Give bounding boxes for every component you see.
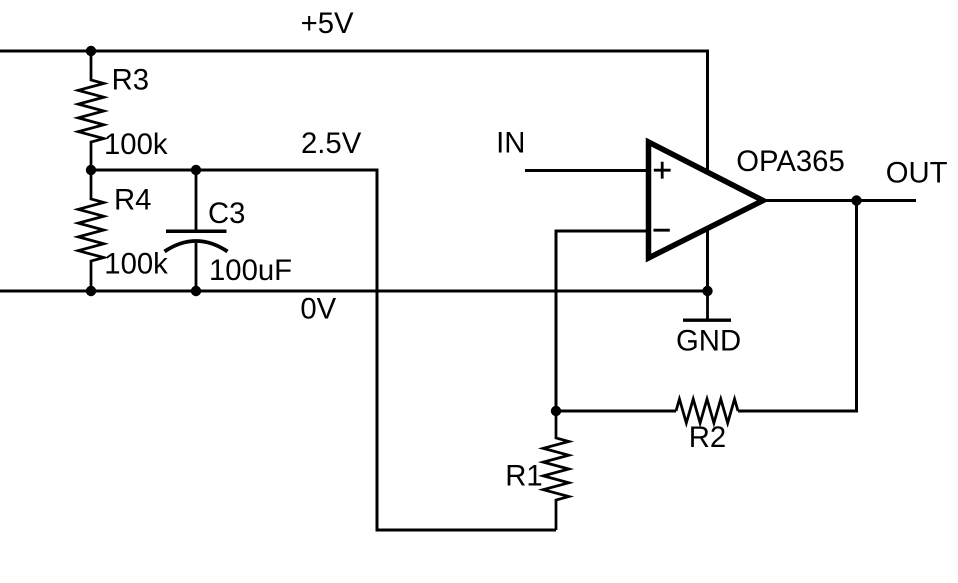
junction output/OUT [851,195,861,205]
svg-text:0V: 0V [300,292,336,325]
junction R3/R4/2.5V node [86,165,96,175]
op-amp U1 OPA365 triangle [649,142,764,258]
junction R4/0V [86,286,96,296]
svg-text:OPA365: OPA365 [736,145,845,178]
svg-text:100k: 100k [104,128,168,161]
resistor R1 [543,411,569,530]
svg-text:100uF: 100uF [209,254,292,287]
op-amp + input symbol [654,162,671,179]
resistor R3 [78,51,104,170]
wire 2.5V rail [91,170,556,530]
junction R1/R2/feedback [551,406,561,416]
svg-text:R1: R1 [505,460,542,493]
junction C3/0V [191,286,201,296]
capacitor C3 lead from 2.5V [195,170,198,230]
wire op-amp - input to feedback node [556,231,648,411]
capacitor C3 top plate [166,230,227,234]
svg-text:100k: 100k [104,248,168,281]
svg-text:R4: R4 [114,184,151,217]
svg-text:GND: GND [676,324,741,357]
resistor R2 [676,399,738,423]
junction 2.5V/C3 [191,165,201,175]
wire 0V rail [0,290,708,293]
wire op-amp V- to 0V rail [706,229,709,291]
resistor R4 [78,170,104,291]
wire IN to op-amp + input [525,169,648,172]
wire op-amp output [763,199,916,202]
capacitor C3 curved plate [165,241,228,252]
ground GND stub [706,291,709,319]
svg-text:IN: IN [496,126,525,159]
wire +5V rail and drop to op-amp V+ [0,51,708,171]
svg-text:+5V: +5V [301,7,354,40]
svg-text:R2: R2 [689,421,726,454]
svg-text:R3: R3 [112,64,149,97]
wire OUT drop to R2 [738,201,857,412]
junction 0V/GND/op-amp V- [702,286,712,296]
svg-text:2.5V: 2.5V [301,127,362,160]
op-amp - input symbol [654,229,670,232]
junction +5V/R3 [86,46,96,56]
capacitor C3 lead to 0V [195,243,198,291]
wire feedback node to R2 [556,410,676,413]
svg-text:C3: C3 [208,197,245,230]
svg-text:OUT: OUT [886,157,948,190]
ground GND bar [683,319,731,322]
